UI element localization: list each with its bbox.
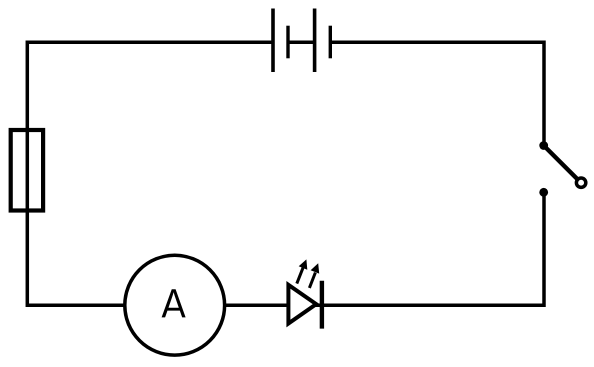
battery B1 cell2 short plate <box>329 26 332 59</box>
ammeter A1 body <box>125 255 225 355</box>
battery B1 cell1 long plate <box>271 9 275 73</box>
switch S1 open-contact circle <box>576 178 585 187</box>
switch S1 blade <box>544 146 579 181</box>
LED D1 triangle <box>288 285 316 324</box>
LED D1 arrow 1 shaft <box>297 267 304 284</box>
LED D1 arrow 1 head <box>299 259 308 269</box>
ammeter A1 label <box>162 289 186 317</box>
battery B1 cell1 short plate <box>286 26 289 59</box>
LED D1 cathode bar <box>320 281 324 329</box>
wire battery internal link <box>288 41 315 45</box>
wire top-left + left side + bottom run <box>27 42 322 305</box>
wire bottom-right + right side lower (from switch) <box>322 193 544 305</box>
switch S1 lower contact dot <box>539 188 548 197</box>
wire top-right + right side upper (to switch) <box>330 42 544 145</box>
LED D1 arrow 2 head <box>311 263 320 273</box>
switch S1 pivot dot <box>539 141 548 150</box>
LED D1 arrow 2 shaft <box>309 273 315 288</box>
battery B1 cell2 long plate <box>313 9 317 73</box>
fuse F1 <box>11 130 43 211</box>
